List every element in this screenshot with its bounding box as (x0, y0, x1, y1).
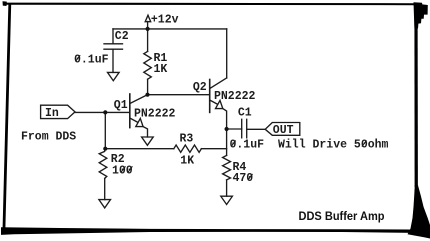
wire input node down to R2 (104, 112, 106, 148)
resistor R3 zigzag (174, 145, 202, 152)
power symbol +12V arrow (145, 15, 151, 22)
wire In tag to Q1 base (75, 111, 130, 113)
junction node rail/R1/+12v (146, 27, 150, 31)
ground below Q1 emitter (142, 137, 154, 145)
transistor Q2 collector diagonal (210, 78, 227, 89)
frame border bottom band (1, 227, 413, 235)
wire R4 top stem (226, 129, 228, 155)
transistor Q1 collector diagonal (130, 95, 147, 104)
wire Q1 emitter to ground (143, 127, 147, 137)
slashed zero in 0.1uF label of C1 (231, 141, 236, 147)
svg-text:1K: 1K (180, 155, 194, 168)
junction node input/Q1 base/R2 (103, 110, 107, 114)
wire R4 to ground (226, 180, 228, 196)
transistor Q1 emitter arrow (136, 118, 143, 126)
frame shadow bottom-right wedge (408, 185, 430, 239)
port tag OUT (265, 123, 300, 136)
svg-text:+12v: +12v (151, 13, 179, 26)
wire R2 junction to R3 (105, 148, 174, 150)
svg-text:0.1uF: 0.1uF (74, 53, 109, 66)
svg-text:From DDS: From DDS (21, 130, 76, 143)
port tag In (41, 105, 75, 118)
wire top power rail (113, 28, 227, 30)
wire R1 bottom stem (147, 79, 149, 94)
svg-text:PN2222: PN2222 (214, 90, 256, 103)
svg-text:PN2222: PN2222 (134, 108, 176, 121)
svg-text:DDS Buffer Amp: DDS Buffer Amp (299, 209, 385, 223)
frame corner top-left notch (3, 1, 7, 6)
wire C1 to OUT tag (247, 128, 266, 130)
svg-text:Will Drive 50ohm: Will Drive 50ohm (278, 139, 389, 152)
frame border right (414, 4, 418, 187)
resistor R4 zigzag (223, 155, 231, 180)
svg-text:Q1: Q1 (114, 99, 128, 112)
transistor Q2 base bar (209, 80, 211, 113)
transistor Q1 emitter diagonal (130, 118, 137, 122)
frame border top (3, 3, 415, 6)
slashed zero in 50ohm note (362, 141, 367, 147)
ground below R4 (221, 196, 233, 204)
svg-text:470: 470 (233, 172, 254, 185)
slashed zero 2 in 100 label of R2 (128, 166, 133, 172)
junction node Q2 emitter/C1/R4 (225, 127, 229, 131)
wire Q2 collector vertical from rail (226, 29, 228, 78)
wire Q2 emitter to output node (223, 109, 227, 129)
wire C2 top stem (112, 29, 114, 44)
slashed zero in 0.1uF label of C2 (76, 55, 81, 61)
svg-text:OUT: OUT (273, 124, 294, 137)
slashed zero 1 in 100 label of R2 (121, 166, 126, 172)
wire +12v stem (147, 22, 149, 29)
wire R1 top stem (147, 29, 149, 52)
svg-text:1K: 1K (154, 63, 168, 76)
wire junction R1/Q1 collector to Q2 base (148, 94, 210, 96)
wire output node to C1 (227, 128, 242, 130)
svg-text:C1: C1 (238, 106, 252, 119)
frame shadow top-right blob (414, 2, 428, 28)
wire R3 to output node column (201, 148, 226, 150)
ground below R2 (99, 200, 111, 208)
svg-text:0.1uF: 0.1uF (230, 139, 265, 152)
svg-text:C2: C2 (115, 30, 129, 43)
transistor Q2 emitter diagonal (210, 100, 217, 104)
transistor Q2 emitter arrow (216, 100, 223, 108)
svg-text:R3: R3 (180, 132, 194, 145)
svg-text:In: In (45, 107, 59, 120)
junction node R2/R3 (103, 147, 107, 151)
resistor R2 zigzag (99, 149, 107, 179)
ground below C2 (108, 72, 120, 80)
junction node R1/Q1 collector (145, 93, 149, 97)
capacitor C1 plates (241, 119, 243, 138)
capacitor C2 plates (104, 43, 123, 45)
frame border left (3, 4, 12, 228)
wire C2 bottom stem (112, 49, 114, 72)
slashed zero in 470 label of R4 (248, 174, 253, 180)
resistor R1 zigzag (144, 51, 152, 79)
wire R2 to ground (104, 178, 106, 199)
svg-text:Q2: Q2 (193, 81, 207, 94)
transistor Q1 base bar (129, 94, 131, 128)
